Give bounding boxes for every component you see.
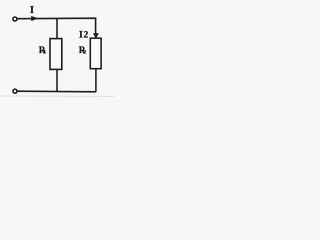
svg-text:1: 1 bbox=[43, 49, 46, 55]
wire right resistor bottom lead bbox=[95, 69, 97, 92]
arrowhead current I on top wire bbox=[31, 16, 38, 21]
svg-text:2: 2 bbox=[83, 50, 86, 56]
wire bottom rail bbox=[17, 90, 96, 93]
svg-text:I: I bbox=[79, 30, 83, 41]
wire top rail with corner to right branch bbox=[17, 18, 95, 34]
svg-text:2: 2 bbox=[84, 30, 89, 41]
resistor R2 body bbox=[90, 38, 101, 68]
resistor R1 body bbox=[50, 39, 62, 70]
wire left resistor top lead bbox=[56, 19, 58, 39]
scan artifact faint line bbox=[0, 95, 114, 97]
wire left resistor bottom lead bbox=[56, 69, 58, 91]
arrowhead current I2 into R2 bbox=[93, 33, 99, 38]
background paper bbox=[0, 0, 122, 104]
terminal T1 (top-left open circle) bbox=[13, 17, 17, 21]
svg-text:I: I bbox=[30, 5, 34, 16]
terminal T2 (bottom-left open circle) bbox=[13, 89, 17, 93]
